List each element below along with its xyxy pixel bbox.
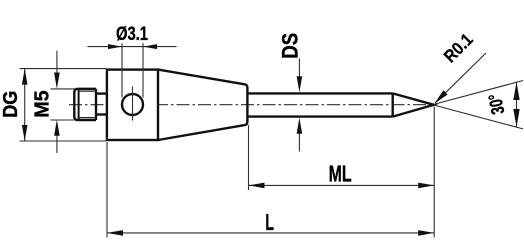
cone (taper)	[158, 70, 247, 140]
thread root line bottom	[78, 117, 97, 119]
angle 30 arrow line	[516, 82, 518, 127]
leader R0.1 arrowhead	[434, 90, 447, 103]
svg-text:Ø3.1: Ø3.1	[116, 24, 148, 45]
dimension M5 extension lines	[51, 89, 75, 120]
svg-text:M5: M5	[32, 90, 54, 118]
dimension M5 arrows	[54, 73, 60, 90]
dimension Ø3.1 arrows	[108, 44, 122, 49]
thread root line top	[78, 90, 97, 92]
dimension ML/L extension line right	[433, 107, 435, 238]
svg-text:ML: ML	[329, 160, 352, 186]
dimension ML dim line	[249, 184, 435, 186]
tip cone	[393, 93, 434, 116]
svg-text:DG: DG	[0, 91, 22, 118]
svg-text:30°: 30°	[484, 92, 509, 116]
dimension M5 arrow lines	[56, 51, 58, 153]
svg-text:DS: DS	[277, 33, 302, 59]
body (holder cylinder)	[107, 70, 158, 140]
cross hole circle	[122, 94, 143, 115]
hole vertical centerline	[132, 87, 134, 121]
dimension DS arrow lines	[298, 59, 300, 152]
shaft (stem)	[247, 93, 392, 116]
dimension ML extension line left	[248, 125, 250, 190]
dimension Ø3.1 dim line	[88, 46, 177, 48]
dimension DG extension lines	[20, 69, 107, 141]
svg-text:L: L	[265, 209, 274, 235]
dimension DG dim line	[24, 69, 26, 141]
dimension L arrows	[107, 230, 123, 236]
angle 30 lower line	[434, 105, 523, 129]
angle 30 arrows	[513, 82, 519, 100]
dimension DS arrows	[297, 76, 303, 92]
dimension L extension line left	[106, 142, 108, 238]
centerline (main axis)	[69, 104, 431, 106]
thread chamfer line	[78, 89, 80, 120]
leader R0.1 line	[435, 53, 486, 103]
neck relief	[96, 94, 108, 115]
dimension L dim line	[107, 232, 434, 234]
dimension Ø3.1 extension lines	[122, 43, 143, 97]
dimension ML arrows	[249, 183, 265, 189]
dimension DG arrows	[22, 69, 28, 85]
thread stub M5 outline	[74, 89, 96, 120]
angle 30 upper line	[434, 81, 523, 105]
